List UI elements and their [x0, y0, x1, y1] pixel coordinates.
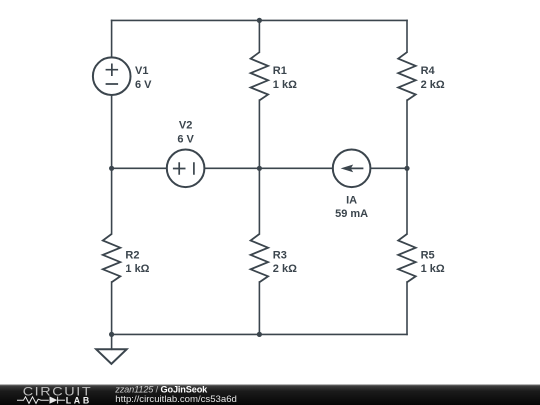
node middle cross junction [257, 166, 262, 171]
wire left column upper (to V1) [111, 20, 113, 57]
resistor R5 [398, 234, 416, 282]
svg-text:V2: V2 [179, 120, 192, 132]
voltage source V1 [93, 57, 131, 95]
svg-text:R3: R3 [273, 250, 287, 262]
node bottom-left junction [109, 332, 114, 337]
node left-middle junction [109, 166, 114, 171]
wire middle column lower (R3 to bottom rail) [258, 282, 260, 334]
svg-text:6 V: 6 V [135, 79, 152, 91]
ground [96, 349, 126, 364]
svg-text:IA: IA [346, 194, 357, 206]
current source IA [333, 150, 371, 188]
resistor R3 [251, 234, 269, 282]
svg-text:http://circuitlab.com/cs53a6d: http://circuitlab.com/cs53a6d [115, 394, 237, 405]
voltage source V2 [167, 150, 205, 188]
svg-text:V1: V1 [135, 65, 148, 77]
wire right column upper (to R4) [406, 20, 408, 52]
svg-text:1 kΩ: 1 kΩ [421, 263, 445, 275]
wire left column middle (V1 to R2) [111, 95, 113, 234]
wire mid rail right of IA [370, 167, 407, 169]
node top-middle junction [257, 18, 262, 23]
svg-text:R5: R5 [421, 250, 435, 262]
footer logo resistor squiggle and diode [17, 397, 65, 404]
wire ground stub [111, 334, 113, 349]
wire bottom rail [112, 333, 407, 335]
svg-text:R1: R1 [273, 65, 287, 77]
svg-text:2 kΩ: 2 kΩ [421, 79, 445, 91]
wire top rail [112, 19, 407, 21]
svg-text:2 kΩ: 2 kΩ [273, 263, 297, 275]
node right-middle junction [404, 166, 409, 171]
resistor R2 [103, 234, 121, 282]
wire mid rail V2 to IA [204, 167, 332, 169]
footer bar [0, 385, 540, 405]
wire middle column upper (to R1) [258, 20, 260, 52]
svg-text:R2: R2 [125, 250, 139, 262]
svg-text:1 kΩ: 1 kΩ [125, 263, 149, 275]
svg-text:1 kΩ: 1 kΩ [273, 79, 297, 91]
wire mid rail left of V2 [112, 167, 167, 169]
svg-text:LAB: LAB [66, 395, 92, 405]
wire right column mid (R4 to R5) [406, 100, 408, 234]
wire middle column mid (R1 to R3) [258, 100, 260, 234]
node bottom-middle junction [257, 332, 262, 337]
wire right column lower (R5 to bottom rail) [406, 282, 408, 334]
resistor R1 [251, 52, 269, 100]
svg-text:zzan1125 / GoJinSeok: zzan1125 / GoJinSeok [114, 385, 208, 395]
svg-text:6 V: 6 V [177, 134, 194, 146]
wire left column lower (R2 to bottom rail) [111, 282, 113, 334]
resistor R4 [398, 52, 416, 100]
svg-text:59 mA: 59 mA [335, 208, 368, 220]
svg-text:R4: R4 [421, 65, 436, 77]
